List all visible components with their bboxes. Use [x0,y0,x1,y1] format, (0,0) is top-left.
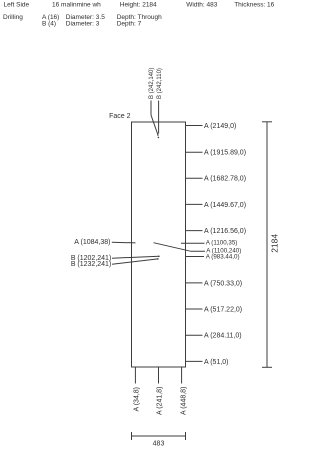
svg-text:A (983.44,0): A (983.44,0) [206,254,240,261]
hole dot B (1202,241) [158,255,160,257]
hole label B (1232,241) [71,259,158,268]
svg-text:Depth: 7: Depth: 7 [117,21,142,28]
leader for B (242,110) [158,101,160,134]
hole label A (983.44,0) [186,254,240,261]
svg-text:B (242,140): B (242,140) [149,68,155,99]
svg-text:Thickness: 16: Thickness: 16 [234,2,274,9]
svg-text:A (750.33,0): A (750.33,0) [204,280,242,287]
svg-text:Height: 2184: Height: 2184 [120,2,157,9]
svg-text:A (2149,0): A (2149,0) [204,123,236,130]
hole dot B lower [158,137,160,139]
bottom hole line A (34,8) [134,367,141,412]
svg-text:Width: 483: Width: 483 [186,2,217,9]
svg-text:Face 2: Face 2 [109,113,131,120]
header: drilling row A [3,14,162,21]
hole label A (1100,240) [154,243,242,255]
svg-text:A (1449.67,0): A (1449.67,0) [204,202,246,209]
svg-text:483: 483 [153,441,165,448]
svg-text:A (34,8): A (34,8) [134,387,141,412]
hole label A (1449.67,0) [186,202,247,209]
hole label A (750.33,0) [186,280,243,287]
hole label B (242,140) rotated [149,68,155,99]
leader for B (242,140) [151,101,158,135]
hole label A (1216.56,0) [186,228,247,235]
svg-text:A (51,0): A (51,0) [204,359,229,366]
hole label A (1100,35) [181,239,237,246]
svg-text:A (284.11,0): A (284.11,0) [204,333,242,340]
bottom hole line A (241,8) [157,367,164,415]
hole label B (242,110) rotated [157,68,163,99]
header: drilling row B [42,21,142,28]
hole dot B upper [157,134,159,136]
width dimension line 483 [132,432,186,448]
hole label A (1915.89,0) [186,150,247,157]
svg-text:A (241,8): A (241,8) [157,387,164,415]
svg-text:A (1915.89,0): A (1915.89,0) [204,150,246,157]
hole label A (2149,0) [186,123,237,130]
svg-text:Diameter: 3: Diameter: 3 [66,21,100,28]
svg-text:A (1084,38): A (1084,38) [74,239,110,246]
header: material [52,2,101,9]
face label Face 2 [109,113,131,120]
svg-text:A (448,8): A (448,8) [180,387,187,415]
svg-text:A (1682.78,0): A (1682.78,0) [204,176,246,183]
svg-text:A (1100,35): A (1100,35) [206,239,238,246]
header: thickness [234,2,274,9]
header: height [120,2,157,9]
svg-text:Left Side: Left Side [4,2,30,9]
height dimension line 2184 [262,122,280,367]
hole label A (1084,38) [74,239,135,246]
svg-text:Drilling: Drilling [3,14,23,21]
svg-text:A (517.22,0): A (517.22,0) [204,306,242,313]
hole label A (51,0) [186,359,229,366]
svg-text:A (1216.56,0): A (1216.56,0) [204,228,246,235]
hole label B (1202,241) [71,255,159,262]
panel outline [132,122,186,367]
hole label A (284.11,0) [186,333,242,340]
svg-text:B (242,110): B (242,110) [157,68,163,99]
bottom hole line A (448,8) [180,367,187,415]
svg-text:16 malinmine wh: 16 malinmine wh [52,2,101,9]
hole dot B (1232,241) [157,258,159,260]
hole label A (1682.78,0) [186,176,247,183]
svg-text:B (1232,241): B (1232,241) [71,261,111,268]
header: width [186,2,217,9]
svg-text:B (4): B (4) [42,21,56,28]
header: panel name [4,2,30,9]
hole label A (517.22,0) [186,306,243,313]
svg-text:2184: 2184 [270,234,280,253]
